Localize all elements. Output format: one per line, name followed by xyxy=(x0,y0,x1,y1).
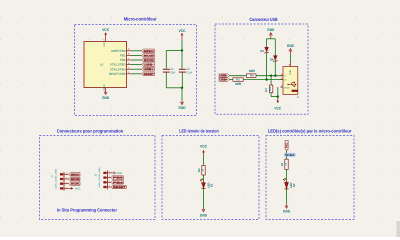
svg-text:3: 3 xyxy=(66,181,67,184)
svg-text:LED(s) contrôlée(s) par le mic: LED(s) contrôlée(s) par le micro-contrôl… xyxy=(268,128,352,133)
global label MOSI xyxy=(69,177,80,181)
svg-text:MOSI: MOSI xyxy=(144,54,155,57)
svg-text:R3: R3 xyxy=(265,88,268,92)
svg-text:USB+: USB+ xyxy=(220,78,228,82)
pin 1 of J1 wire xyxy=(64,173,69,175)
ground (decoupling rail) xyxy=(181,100,183,103)
resistor R3 pullup 1k5 xyxy=(269,85,272,93)
shield bar inside J2 xyxy=(292,90,298,92)
ground (J3 pin 1) xyxy=(111,172,113,174)
svg-text:VCC: VCC xyxy=(103,41,106,46)
connector J1 body xyxy=(63,172,65,191)
node VBUS to VCC xyxy=(277,95,279,97)
svg-text:XTAL2/PB4: XTAL2/PB4 xyxy=(110,67,126,71)
svg-text:4: 4 xyxy=(66,186,67,189)
svg-text:VBUS: VBUS xyxy=(284,87,290,90)
pin 1 VBUS of J2 xyxy=(280,86,283,88)
svg-text:Connecteurs pour programmation: Connecteurs pour programmation xyxy=(57,128,124,133)
pin 3 D+ of J2 xyxy=(280,79,283,81)
svg-text:68R: 68R xyxy=(235,82,242,86)
resistor R1 xyxy=(233,78,243,82)
wire USB+ to R1 xyxy=(230,79,233,81)
USB icon inside J2 xyxy=(288,83,295,87)
wire D2 to ground xyxy=(286,189,288,204)
svg-text:MISO: MISO xyxy=(144,50,154,53)
svg-text:XTAL1/PB3: XTAL1/PB3 xyxy=(110,63,126,67)
pin 3 of J3 wire xyxy=(107,181,110,183)
node D- / pullup R3 xyxy=(270,75,272,77)
resistor R2 xyxy=(285,159,288,169)
ground (controlled LED) xyxy=(286,204,288,207)
wire VBUS down xyxy=(277,87,279,99)
pin 6 shield of J2 xyxy=(289,63,291,67)
ground (LED rail) xyxy=(203,207,205,210)
global label SCK xyxy=(142,58,155,62)
svg-text:PB1: PB1 xyxy=(287,154,296,157)
pin 1 RESET/PB5 of U2 xyxy=(127,73,132,75)
global label MISO xyxy=(69,173,80,177)
svg-text:VCC: VCC xyxy=(75,187,81,190)
global label MISO xyxy=(142,49,155,53)
node bottom rail xyxy=(181,87,183,89)
svg-text:PB1: PB1 xyxy=(285,142,288,148)
svg-text:1: 1 xyxy=(66,172,67,175)
wire VCC to C2 xyxy=(181,40,183,69)
connector J3 body xyxy=(106,171,108,190)
wire pin PB2 to label xyxy=(131,59,142,61)
ground (USB shield) xyxy=(289,50,291,54)
svg-text:GND: GND xyxy=(289,70,292,75)
svg-text:R2: R2 xyxy=(281,162,284,166)
svg-text:2: 2 xyxy=(109,175,110,178)
global label RESET xyxy=(142,72,155,76)
pin 4 of J3 wire xyxy=(107,186,110,188)
pin 5 AREF/PB0 of U2 xyxy=(127,50,132,52)
svg-text:PB1: PB1 xyxy=(120,53,126,57)
wire pullup lower lead xyxy=(270,93,272,97)
wire R2 to D2 xyxy=(286,169,288,182)
wire D1 to ground xyxy=(203,188,205,207)
svg-text:VCC: VCC xyxy=(200,144,207,148)
svg-text:GND: GND xyxy=(200,213,207,217)
section box Connecteurs pour programmation xyxy=(39,136,155,220)
wire pin XTAL2/PB4 to label xyxy=(131,68,142,70)
svg-text:SCK: SCK xyxy=(71,183,80,186)
global label PB4 xyxy=(111,181,124,185)
wire R5 to D1 xyxy=(203,175,205,183)
global label PB3 xyxy=(111,176,124,180)
pin 7 PB2 of U2 xyxy=(127,59,132,61)
global label SCK xyxy=(69,182,80,186)
svg-text:GND: GND xyxy=(283,210,290,214)
ground (zener rail) xyxy=(270,34,272,39)
wire right branch upper xyxy=(274,39,276,56)
capacitor C2 xyxy=(179,68,186,70)
svg-text:D2: D2 xyxy=(293,183,296,187)
pin 3 of J1 wire xyxy=(64,183,69,185)
wire C1 upper lead xyxy=(165,51,167,69)
section box LED temoin de tension xyxy=(162,136,259,220)
pin 4 of J1 wire xyxy=(64,187,69,189)
svg-text:In Situ Programming Connector: In Situ Programming Connector xyxy=(57,208,117,213)
svg-text:AREF/PB0: AREF/PB0 xyxy=(111,49,126,53)
global label USB- xyxy=(219,74,230,78)
connector J2 USB body xyxy=(283,67,298,95)
pin 2 XTAL1/PB3 of U2 xyxy=(127,64,132,66)
wire to ground xyxy=(181,88,183,100)
wire pin XTAL1/PB3 to label xyxy=(131,64,142,66)
svg-text:SCK: SCK xyxy=(144,59,155,62)
pin 2 of J1 wire xyxy=(64,178,69,180)
svg-text:GND: GND xyxy=(179,106,186,110)
selected label PB1 highlight xyxy=(284,153,295,157)
svg-text:MISO: MISO xyxy=(71,173,80,176)
pin 2 D- of J2 xyxy=(280,75,283,77)
svg-text:USB+: USB+ xyxy=(144,68,155,71)
wire D4 to D- line xyxy=(274,61,276,76)
diode D3 zener xyxy=(265,47,269,52)
pin 2 of J3 wire xyxy=(107,177,110,179)
svg-text:VCC: VCC xyxy=(179,29,186,33)
wire pullup upper lead xyxy=(270,76,272,85)
LED D1 xyxy=(202,183,206,189)
scrollbar corner xyxy=(397,221,400,237)
svg-text:D-: D- xyxy=(284,75,287,78)
wire C2 lower lead xyxy=(181,73,183,88)
global label USB+ xyxy=(219,78,230,82)
wire pin RESET/PB5 to label xyxy=(131,73,142,75)
svg-text:D1: D1 xyxy=(210,183,213,187)
node top rail xyxy=(181,49,183,51)
wire pin PB1 to label xyxy=(131,54,142,56)
svg-text:2: 2 xyxy=(66,177,67,180)
capacitor C1 xyxy=(163,68,170,70)
wire top rail to C1 xyxy=(166,50,182,52)
section box Connecteur USB xyxy=(215,24,308,114)
svg-text:LED témoin de tension: LED témoin de tension xyxy=(179,128,219,133)
svg-text:GND: GND xyxy=(102,96,109,100)
svg-text:1k5: 1k5 xyxy=(269,86,272,91)
svg-text:PB3: PB3 xyxy=(113,177,124,180)
svg-text:VCC: VCC xyxy=(274,106,281,110)
global label RESET xyxy=(111,185,126,189)
svg-text:R4: R4 xyxy=(250,75,254,78)
resistor R5 xyxy=(202,166,205,176)
svg-text:PB2: PB2 xyxy=(120,58,126,62)
svg-text:1: 1 xyxy=(109,171,110,174)
svg-text:RESET: RESET xyxy=(144,73,155,76)
wire D3 to D+ line xyxy=(266,53,268,80)
svg-text:Connecteur USB: Connecteur USB xyxy=(250,17,279,22)
svg-text:VCC: VCC xyxy=(102,28,109,32)
svg-text:RESET/PB5: RESET/PB5 xyxy=(109,72,126,76)
svg-text:Conn_01x04_Male: Conn_01x04_Male xyxy=(55,168,58,189)
LED D2 xyxy=(285,182,289,189)
svg-text:68R: 68R xyxy=(249,69,256,73)
svg-text:MOSI: MOSI xyxy=(71,178,80,181)
resistor R4 xyxy=(246,74,256,78)
svg-text:10nF: 10nF xyxy=(171,71,176,75)
svg-text:GND: GND xyxy=(267,28,274,32)
pin 6 PB1 of U2 xyxy=(127,54,132,56)
wire label to net label xyxy=(286,151,288,160)
wire left branch upper xyxy=(266,39,268,47)
wire C1 lower lead xyxy=(165,73,167,88)
wire R1 to D+ pin xyxy=(243,79,283,81)
section box Micro-controleur xyxy=(75,25,197,116)
svg-text:D4: D4 xyxy=(270,57,274,61)
ground below U2 xyxy=(105,91,107,93)
svg-text:D3: D3 xyxy=(260,49,264,53)
global label PB1 vertical xyxy=(285,141,288,151)
wire R4 to D- pin xyxy=(256,75,283,77)
svg-text:USB-: USB- xyxy=(144,64,155,67)
global label MOSI xyxy=(142,54,155,58)
pin 1 of J3 wire xyxy=(107,172,111,174)
wire VCC to R5 xyxy=(203,155,205,165)
svg-text:0.1uF: 0.1uF xyxy=(187,71,193,75)
wire pin AREF/PB0 to label xyxy=(131,50,142,52)
IC U2 micro-controller body xyxy=(84,42,127,88)
power VCC (J1 pin 4) xyxy=(69,187,71,189)
svg-text:PB4: PB4 xyxy=(113,181,124,184)
svg-text:Micro-contrôleur: Micro-contrôleur xyxy=(124,17,157,22)
svg-text:GND: GND xyxy=(117,172,123,175)
svg-text:4: 4 xyxy=(109,185,110,188)
svg-text:U2: U2 xyxy=(100,63,104,67)
svg-text:Conn_01x04_Male: Conn_01x04_Male xyxy=(98,167,101,188)
section box LED(s) controlee(s) par le micro-controleur xyxy=(266,136,354,220)
wire USB- to R4 xyxy=(230,75,247,77)
global label USB+ xyxy=(142,67,155,71)
svg-text:3: 3 xyxy=(109,180,110,183)
diode D4 zener xyxy=(273,56,277,61)
pin 3 XTAL2/PB4 of U2 xyxy=(127,68,132,70)
node D+ / zener D3 xyxy=(265,78,267,80)
wire bottom rail xyxy=(166,87,182,89)
global label USB- xyxy=(142,63,155,67)
pin 4 GND of U2 xyxy=(105,88,107,91)
wire shield to connector xyxy=(289,55,291,63)
svg-text:RESET: RESET xyxy=(113,186,126,189)
wire gnd split top xyxy=(267,38,276,40)
node D- / zener D4 xyxy=(274,75,276,77)
svg-text:GND: GND xyxy=(287,44,294,48)
